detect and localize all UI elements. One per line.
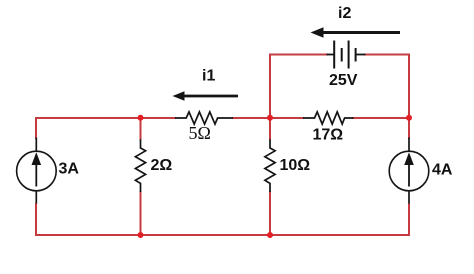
wire: middle horizontal net, between 5ohm and 17ohm xyxy=(232,117,304,119)
svg-text:i2: i2 xyxy=(338,5,351,22)
current source 4A: upper black lead xyxy=(408,138,410,153)
resistor 17ohm (horizontal zigzag on middle net) xyxy=(303,112,354,124)
current source 4A: arrow shaft xyxy=(408,163,410,187)
current source 4A: circle xyxy=(389,151,429,191)
svg-text:3A: 3A xyxy=(59,161,80,178)
wire: top branch left vertical (270,54)-(270,118) xyxy=(269,55,271,120)
wire: left branch lower segment xyxy=(35,203,37,236)
junction node: middle node 10ohm top (270,118) xyxy=(267,115,273,121)
resistor 10ohm (vertical zigzag) xyxy=(265,139,275,192)
wire: left branch upper segment xyxy=(35,117,37,139)
wire: 10ohm branch upper segment xyxy=(269,117,271,140)
current source 3A: upper black lead xyxy=(35,138,37,153)
wire: right branch lower segment xyxy=(408,203,410,236)
battery 25V: tall plate 2 xyxy=(348,41,350,69)
battery 25V: left lead xyxy=(327,54,335,56)
svg-text:10Ω: 10Ω xyxy=(280,157,311,174)
wire: 2ohm branch upper segment xyxy=(140,117,142,140)
current arrow i1 (points left, above 5ohm) xyxy=(173,91,239,101)
wire: top branch horizontal left of battery xyxy=(269,54,328,56)
svg-text:5Ω: 5Ω xyxy=(189,123,211,143)
junction node: 2ohm bottom (140,235) xyxy=(138,232,144,238)
svg-text:i1: i1 xyxy=(202,68,215,85)
battery 25V: right lead xyxy=(356,54,366,56)
wire: bottom net (36,235)-(409,235) xyxy=(36,234,409,236)
wire: right branch upper segment (409,54)-(409,138) xyxy=(408,54,410,140)
svg-text:17Ω: 17Ω xyxy=(313,127,344,144)
resistor 5ohm (horizontal zigzag on middle net) xyxy=(175,112,233,124)
svg-text:4A: 4A xyxy=(432,162,453,179)
wire: middle horizontal net, left of R 5ohm xyxy=(35,117,176,119)
resistor 2ohm (vertical zigzag) xyxy=(135,139,145,192)
svg-text:25V: 25V xyxy=(329,72,358,89)
junction node: 10ohm bottom (270,235) xyxy=(267,232,273,238)
current source 3A: arrow head xyxy=(32,152,42,165)
current source 3A: arrow shaft xyxy=(35,163,37,187)
battery 25V: short plate 2 xyxy=(355,48,357,62)
current source 3A: lower black lead xyxy=(35,190,37,204)
current arrow i2 (points left, above battery) xyxy=(311,27,401,38)
battery 25V: short plate 1 xyxy=(341,48,343,62)
wire: top branch horizontal right of battery xyxy=(364,54,410,56)
wire: 2ohm branch lower segment xyxy=(140,191,142,236)
wire: 10ohm branch lower segment xyxy=(269,191,271,236)
current source 3A: circle xyxy=(17,151,57,191)
current source 4A: lower black lead xyxy=(408,190,410,204)
current source 4A: arrow head xyxy=(404,152,414,165)
junction node: right node (409,118) xyxy=(406,115,412,121)
junction node: 2ohm top (140,118) xyxy=(138,115,144,121)
wire: middle horizontal net, right of 17ohm xyxy=(352,117,410,119)
svg-text:2Ω: 2Ω xyxy=(151,157,173,174)
battery 25V: tall plate 1 xyxy=(333,41,335,69)
